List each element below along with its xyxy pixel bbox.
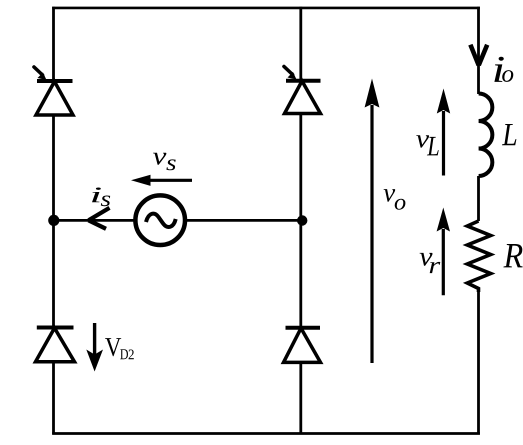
arrow is xyxy=(89,208,110,229)
wire source right xyxy=(184,219,302,222)
label vL xyxy=(416,135,439,155)
source vs circle xyxy=(135,195,185,245)
wire center upper xyxy=(299,7,302,81)
arrow io xyxy=(470,45,487,66)
label io xyxy=(494,57,513,82)
node right junction xyxy=(297,215,307,225)
label R xyxy=(503,244,522,267)
arrow vo xyxy=(365,79,380,364)
wire left lower xyxy=(52,362,55,435)
arrow V_D2 xyxy=(86,323,103,372)
wire right lower xyxy=(477,292,480,435)
label vs xyxy=(153,153,176,171)
label vr xyxy=(420,253,441,273)
thyristor T3 xyxy=(284,67,321,114)
wire top xyxy=(52,7,480,10)
label L xyxy=(502,124,516,145)
label V_D2 xyxy=(105,338,134,359)
wire left middle xyxy=(52,115,55,328)
node left junction xyxy=(48,215,59,226)
arrow vr xyxy=(437,208,450,296)
wire center lower xyxy=(299,362,302,434)
resistor R xyxy=(467,221,490,292)
arrow vs xyxy=(131,175,192,186)
wire center middle xyxy=(299,114,302,328)
label vo xyxy=(384,189,406,210)
wire source left xyxy=(54,219,138,222)
wire right middle xyxy=(477,176,480,221)
wire right upper xyxy=(477,7,480,94)
label is xyxy=(92,188,110,207)
arrow vL xyxy=(437,89,450,176)
diode D2 xyxy=(36,328,75,362)
wire bottom xyxy=(52,432,480,435)
inductor L xyxy=(479,94,493,177)
wire left upper xyxy=(52,7,55,81)
diode D4 xyxy=(284,328,321,363)
thyristor T1 xyxy=(34,67,73,115)
